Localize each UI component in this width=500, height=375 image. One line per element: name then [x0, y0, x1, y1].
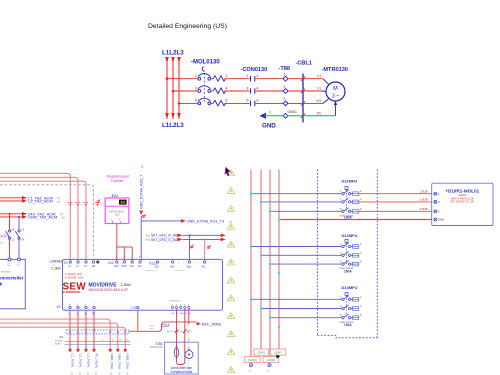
svg-text:9(x): 9(x) — [146, 238, 151, 242]
svg-text:-U0RA1: -U0RA1 — [49, 258, 64, 263]
svg-text:-T88: -T88 — [279, 66, 291, 72]
svg-text:B27 D%2AD TC L/W: B27 D%2AD TC L/W — [451, 201, 475, 204]
svg-text:1: 1 — [269, 111, 271, 115]
svg-text:V1: V1 — [317, 87, 321, 91]
svg-text:+PL1: +PL1 — [162, 323, 170, 327]
svg-text:PE: PE — [317, 112, 322, 116]
svg-text:6: 6 — [257, 99, 259, 103]
svg-text:xx xxxx: xx xxxx — [1, 270, 11, 274]
svg-text:GND: GND — [262, 123, 276, 130]
svg-text:6: 6 — [226, 99, 228, 103]
svg-text:omverteiler: omverteiler — [0, 276, 24, 281]
svg-text:(GND): (GND) — [266, 358, 275, 362]
svg-text:3.5UB: 3.5UB — [420, 207, 428, 211]
svg-text:L3_TA2A1: L3_TA2A1 — [86, 354, 90, 368]
svg-text:+R: +R — [171, 313, 174, 315]
svg-text:3: 3 — [195, 86, 197, 90]
svg-text:W1: W1 — [317, 99, 322, 103]
svg-text:M: M — [333, 86, 338, 92]
svg-text:(GND): (GND) — [248, 358, 257, 362]
svg-text:2,2kW: 2,2kW — [51, 266, 61, 270]
svg-text:-MOL_M005: -MOL_M005 — [201, 323, 221, 327]
svg-text:+24V: +24V — [114, 266, 120, 268]
svg-text:-MTR0130: -MTR0130 — [322, 67, 348, 73]
svg-text:9(x): 9(x) — [146, 234, 151, 238]
svg-text:+) ··· (: +) ··· ( — [178, 262, 184, 264]
svg-text:D13MFU: D13MFU — [342, 285, 358, 290]
svg-text:X1: X1 — [64, 261, 68, 265]
svg-text:+) ·· (: +) ·· ( — [194, 262, 200, 264]
svg-text:GND_EXTA6_KO1_7.6: GND_EXTA6_KO1_7.6 — [187, 219, 224, 223]
svg-text:13: 13 — [21, 228, 25, 232]
svg-text:DB: DB — [188, 313, 192, 315]
svg-text:Start: Start — [186, 265, 191, 268]
svg-text:(24V): (24V) — [274, 351, 281, 355]
svg-text:100A: 100A — [344, 269, 352, 273]
svg-text:N: N — [18, 262, 20, 266]
svg-text:-CBL1: -CBL1 — [296, 61, 312, 67]
svg-text:2: 2 — [226, 74, 228, 78]
svg-text:GND_EXTA6_KO1_7: GND_EXTA6_KO1_7 — [140, 175, 144, 209]
svg-text:X12: X12 — [108, 261, 114, 265]
svg-text:(x): (x) — [229, 219, 232, 223]
svg-text:D11MFU: D11MFU — [342, 179, 358, 184]
svg-text:+) ·· (: +) ·· ( — [162, 262, 168, 264]
svg-text:Stb1: Stb1 — [155, 265, 160, 268]
svg-text:x/xxxxx/xx: x/xxxxx/xx — [169, 299, 181, 302]
svg-text:GND_TA2A: GND_TA2A — [118, 354, 122, 370]
svg-text:-MOL0130: -MOL0130 — [191, 60, 220, 66]
svg-text:100A: 100A — [344, 323, 352, 327]
svg-text:xxxxxx xx: xxxxxx xx — [175, 270, 185, 272]
svg-text:3: 3 — [247, 86, 249, 90]
svg-text:RegloKnuppel: RegloKnuppel — [107, 175, 130, 179]
svg-text:-A12: -A12 — [114, 213, 120, 217]
svg-text:Run: Run — [138, 266, 143, 268]
svg-text:(x): (x) — [57, 199, 60, 203]
svg-text:L2_TA2A1: L2_TA2A1 — [78, 354, 82, 368]
svg-text:U1: U1 — [317, 74, 321, 78]
svg-text:-T1B1: -T1B1 — [154, 342, 163, 346]
svg-text:SK7_GFD_S_3Wx: SK7_GFD_S_3Wx — [151, 238, 180, 242]
svg-text:GND_TA2A: GND_TA2A — [126, 354, 130, 370]
svg-text:(24V): (24V) — [258, 351, 265, 355]
svg-text:L1L2L3: L1L2L3 — [162, 122, 184, 129]
svg-text:X2: X2 — [57, 305, 61, 309]
svg-text:EURODRIVE: EURODRIVE — [63, 290, 81, 294]
svg-text:1: 1 — [195, 74, 197, 78]
svg-text:3 ~: 3 ~ — [332, 94, 339, 100]
svg-text:L1_TA2A1: L1_TA2A1 — [70, 354, 74, 368]
svg-text:1: 1 — [247, 74, 249, 78]
svg-text:100A: 100A — [344, 216, 352, 220]
svg-text:(x): (x) — [140, 165, 144, 168]
svg-text:Stb2: Stb2 — [170, 265, 175, 268]
svg-text:MDX61B-0022-5A3-4-0T: MDX61B-0022-5A3-4-0T — [89, 288, 130, 292]
svg-text:-EA1: -EA1 — [111, 194, 119, 198]
svg-text:D12MFU: D12MFU — [342, 233, 358, 238]
svg-text:5: 5 — [195, 99, 197, 103]
svg-text:2,2kW: 2,2kW — [121, 283, 132, 287]
svg-text:+) ·· (: +) ·· ( — [209, 262, 215, 264]
svg-text:Detailed Engineering (US): Detailed Engineering (US) — [148, 23, 227, 30]
svg-text:GND_TA2A: GND_TA2A — [110, 354, 114, 370]
svg-text:2: 2 — [257, 74, 259, 78]
svg-text:xx xx: xx xx — [55, 342, 61, 345]
svg-text:+D19R1-MOL01: +D19R1-MOL01 — [445, 188, 479, 193]
svg-text:GND: GND — [438, 218, 444, 222]
svg-text:xxx/xxxx-x.x: xxx/xxxx-x.x — [145, 270, 158, 272]
svg-text:BW100-005: BW100-005 — [150, 346, 163, 349]
svg-text:EA: EA — [121, 201, 126, 205]
svg-text:A: B010L 10%: A: B010L 10% — [65, 272, 83, 276]
svg-text:3: 3 — [284, 97, 286, 101]
svg-text:2: 2 — [284, 85, 286, 89]
svg-text:A: B010E -10%: A: B010E -10% — [65, 276, 84, 280]
svg-text:L2_TA2_ACM: L2_TA2_ACM — [28, 199, 53, 204]
svg-text:| C8: | C8 — [131, 305, 137, 309]
svg-text:GND_TA2_ACM: GND_TA2_ACM — [28, 215, 57, 220]
svg-text:1.5UB: 1.5UB — [420, 190, 428, 194]
svg-text:(x): (x) — [62, 215, 65, 219]
svg-text:Schaltschrank: Schaltschrank — [170, 370, 192, 374]
svg-text:4: 4 — [257, 86, 259, 90]
svg-text:GND: GND — [122, 266, 127, 268]
svg-text:GND1: GND1 — [288, 110, 298, 114]
svg-text:14: 14 — [21, 238, 25, 242]
svg-text:2 Achse: 2 Achse — [111, 179, 124, 183]
svg-text:22: 22 — [12, 238, 16, 242]
svg-text:-CON0130: -CON0130 — [241, 67, 268, 73]
svg-text:PE_TA2A1: PE_TA2A1 — [94, 354, 98, 369]
svg-text:2.5UB: 2.5UB — [420, 198, 428, 202]
svg-text:-S1Qm: -S1Qm — [0, 233, 9, 238]
svg-text:PE: PE — [92, 265, 96, 268]
svg-text:L1L2L3: L1L2L3 — [162, 50, 184, 57]
svg-text:1: 1 — [284, 73, 286, 77]
svg-text:4: 4 — [226, 86, 228, 90]
svg-text:21: 21 — [12, 228, 16, 232]
svg-text:Rst: Rst — [202, 265, 206, 268]
svg-text:5: 5 — [247, 99, 249, 103]
